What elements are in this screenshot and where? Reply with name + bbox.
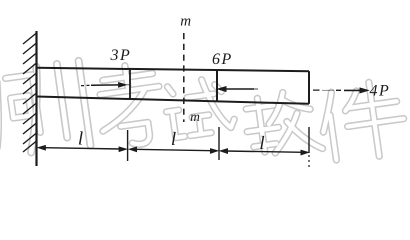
force 3P arrow xyxy=(81,83,130,87)
dimension line l segment 1 xyxy=(38,145,127,151)
svg-text:l: l xyxy=(259,133,264,154)
svg-text:4P: 4P xyxy=(370,83,391,100)
dimension extension tick 2 xyxy=(218,127,220,160)
svg-text:m: m xyxy=(180,13,191,29)
svg-text:l: l xyxy=(78,129,83,150)
svg-text:6P: 6P xyxy=(212,51,233,68)
section line m-m xyxy=(183,33,185,122)
dimension line l segment 2 xyxy=(129,147,218,153)
dimension line l segment 3 xyxy=(220,149,309,155)
force 6P arrow xyxy=(218,87,258,92)
bar top edge xyxy=(37,68,310,71)
dimension extension tick 1 xyxy=(127,130,129,161)
bar right end edge xyxy=(308,71,310,104)
force 4P arrow xyxy=(313,88,368,93)
bar divider at 3P section xyxy=(129,69,131,100)
svg-text:3P: 3P xyxy=(110,47,132,64)
wall hatching xyxy=(23,33,37,152)
svg-text:m: m xyxy=(190,109,200,124)
bar divider at 6P section xyxy=(216,70,218,101)
bar bottom edge xyxy=(37,97,310,104)
fixed wall xyxy=(35,31,37,166)
svg-text:l: l xyxy=(171,129,176,150)
dimension extension tick 3 xyxy=(308,127,310,153)
